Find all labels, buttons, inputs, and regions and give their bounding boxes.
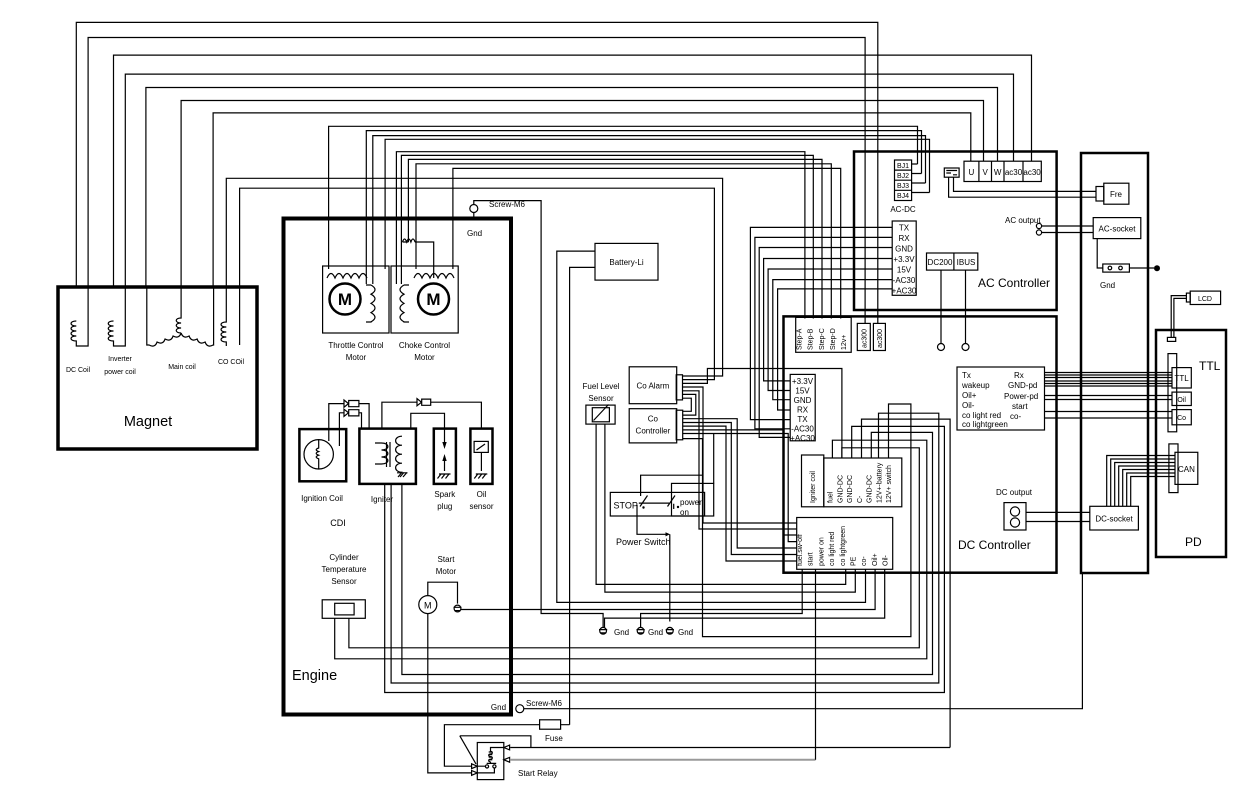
wire main coil U: [213, 113, 971, 287]
start relay box: [477, 743, 504, 780]
relay contact wires: [477, 766, 494, 773]
LCD box: [1190, 291, 1220, 304]
fuse: [540, 720, 561, 729]
switch link wire: [639, 502, 669, 504]
engine box: [284, 219, 512, 715]
igniter box: [359, 429, 416, 484]
svg-text:CDI: CDI: [330, 518, 346, 528]
wire co controller r2: [683, 423, 797, 555]
wire co alarm r3: [683, 369, 842, 459]
wire screw bottom to tall box: [524, 573, 1083, 709]
wire STOP top branch: [641, 475, 703, 496]
svg-text:+3.3V: +3.3V: [893, 255, 915, 264]
wire co controller r5: [683, 434, 797, 542]
svg-text:Sensor: Sensor: [588, 394, 614, 403]
wire co alarm r5: [683, 391, 797, 529]
diode+rect pair to ignition coil: [329, 400, 369, 441]
cylinder temperature sensor: [322, 600, 365, 619]
wire igniter3 B3: [402, 432, 933, 674]
wire AC-DC RX: [755, 237, 892, 428]
wire CAN 1: [1107, 456, 1175, 507]
svg-text:Co: Co: [648, 415, 659, 424]
svg-text:Step-A: Step-A: [797, 328, 804, 350]
magnet box: [58, 287, 257, 449]
relay coil: [487, 748, 504, 764]
wire CAN 7: [1131, 477, 1175, 507]
svg-text:co light red: co light red: [962, 411, 1001, 420]
choke control motor box: [391, 266, 458, 333]
svg-text:Screw-M6: Screw-M6: [526, 699, 563, 708]
wire screw top L to gnd1: [474, 201, 603, 628]
throttle winding top: [327, 274, 367, 279]
svg-text:AC-DC: AC-DC: [890, 205, 916, 214]
wire throttle4 to BJ4: [385, 139, 929, 269]
DC-socket box: [1090, 506, 1139, 530]
TTL connector: [1168, 354, 1177, 432]
DC200 IBUS: [927, 253, 978, 270]
wires AC output to AC-socket: [1042, 226, 1094, 233]
svg-text:Motor: Motor: [346, 353, 367, 362]
co alarm connector: [676, 375, 682, 400]
connector wires to Fre: [954, 177, 1097, 191]
svg-text:Gnd: Gnd: [467, 229, 482, 238]
svg-text:Gnd: Gnd: [614, 628, 629, 637]
arrows into relay right: [504, 745, 510, 762]
wire main coil W: [146, 88, 998, 288]
Step block: [796, 317, 852, 352]
svg-text:BJ2: BJ2: [897, 173, 909, 180]
choke M circle: [418, 284, 449, 315]
gnd 2: [637, 627, 644, 634]
wire choke4 StepD: [416, 164, 831, 319]
DC controller box: [784, 316, 1057, 572]
svg-text:-AC30: -AC30: [893, 276, 916, 285]
svg-text:on: on: [680, 508, 689, 517]
svg-text:GND-DC: GND-DC: [847, 475, 854, 503]
wire battery1: [557, 251, 866, 602]
power on box: [672, 483, 714, 516]
svg-text:Step-B: Step-B: [808, 328, 815, 350]
svg-text:Start: Start: [438, 555, 456, 564]
svg-text:fuel: fuel: [828, 491, 835, 503]
igniter transformer: [375, 436, 402, 472]
wire DC coil lead1 to ac300 no2: [76, 22, 878, 323]
throttle control motor box: [323, 266, 389, 333]
svg-text:Cylinder: Cylinder: [329, 553, 359, 562]
svg-text:+3.3V: +3.3V: [792, 377, 814, 386]
svg-text:Rx: Rx: [1014, 371, 1024, 380]
IBUS wire + circle: [965, 270, 967, 343]
wires DC output to DC-socket: [1026, 512, 1090, 521]
wire start terminal right: [461, 569, 875, 609]
svg-text:Ignition Coil: Ignition Coil: [301, 494, 343, 503]
svg-text:Tx: Tx: [962, 371, 971, 380]
svg-text:Controller: Controller: [636, 427, 671, 436]
wire choke2 StepB: [401, 155, 813, 318]
AC controller box: [854, 152, 1057, 311]
wire AC-DC 15V: [768, 269, 892, 391]
svg-text:co-: co-: [861, 556, 868, 566]
svg-text:Choke Control: Choke Control: [399, 341, 450, 350]
svg-text:Sensor: Sensor: [331, 577, 357, 586]
svg-text:Battery-Li: Battery-Li: [609, 258, 643, 267]
wire relay to C- col (pyramid): [862, 419, 951, 747]
wire power-on box top to co controller r5 row: [713, 434, 715, 484]
svg-text:power: power: [680, 498, 702, 507]
svg-text:ac300: ac300: [862, 329, 869, 348]
wire igniter1 B5: [385, 426, 945, 692]
diode+rect to oil sensor: [382, 399, 482, 429]
svg-text:LCD: LCD: [1198, 296, 1212, 303]
svg-text:V: V: [983, 168, 989, 177]
wire co alarm link1: [683, 394, 696, 415]
svg-text:AC output: AC output: [1005, 216, 1041, 225]
svg-text:M: M: [338, 290, 352, 309]
relay contacts: [485, 765, 488, 768]
svg-text:RX: RX: [898, 234, 910, 243]
svg-text:co lightgreen: co lightgreen: [962, 420, 1008, 429]
svg-text:start: start: [1012, 402, 1028, 411]
wire relay right gray: [510, 759, 816, 761]
fuse wire: [444, 725, 569, 767]
throttle coil right: [366, 285, 375, 322]
spark gap symbol: [444, 429, 446, 471]
svg-text:Oil-: Oil-: [883, 554, 890, 566]
svg-text:PD: PD: [1185, 535, 1202, 549]
svg-text:co-: co-: [1010, 412, 1021, 421]
svg-text:DC200: DC200: [928, 258, 953, 267]
svg-text:Main coil: Main coil: [168, 364, 196, 371]
svg-text:Gnd: Gnd: [491, 703, 506, 712]
screw-M6 top: [470, 205, 478, 213]
wire fuel sensor 2: [605, 424, 855, 592]
svg-text:Spark: Spark: [434, 490, 456, 499]
svg-text:fuel.sw-off: fuel.sw-off: [797, 534, 804, 566]
switch blade STOP: [640, 496, 648, 507]
svg-text:Oil: Oil: [1177, 397, 1186, 404]
svg-text:Screw-M6: Screw-M6: [489, 200, 526, 209]
svg-text:Start Relay: Start Relay: [518, 769, 558, 778]
wire gnd3 vertical: [669, 534, 671, 621]
choke coil left: [400, 285, 409, 322]
svg-text:DC Coil: DC Coil: [66, 367, 91, 374]
wire choke3 StepC (via inductor): [408, 159, 822, 318]
svg-text:12V+-battery: 12V+-battery: [876, 462, 883, 503]
wire inverter lead1 to ac30 no2: [114, 55, 1032, 287]
svg-text:Co: Co: [1177, 415, 1186, 422]
svg-text:15V: 15V: [897, 266, 912, 275]
wire fuel sensor 1: [596, 424, 846, 584]
wire relay right black: [510, 747, 950, 749]
gnd component: [1097, 239, 1103, 268]
wire choke1 StepA: [396, 152, 805, 319]
wire AC-DC TX: [750, 227, 892, 419]
svg-text:TX: TX: [797, 415, 808, 424]
svg-text:PE: PE: [851, 556, 858, 566]
wire CAN 4: [1119, 466, 1175, 506]
wire CAN 2: [1111, 459, 1175, 506]
svg-text:Magnet: Magnet: [124, 414, 172, 430]
wire co controller bottom stub to STOP and co light (pyramid L1): [683, 404, 911, 637]
ignition coil inner: [316, 440, 319, 469]
ac300 boxes: [857, 323, 870, 350]
svg-text:Oil-: Oil-: [962, 401, 975, 410]
wire STOP contact to gnd3: [637, 505, 666, 534]
svg-text:Fuel Level: Fuel Level: [583, 382, 620, 391]
svg-text:+AC30: +AC30: [790, 434, 815, 443]
wire CAN 6: [1127, 473, 1175, 506]
svg-text:12V+ switch: 12V+ switch: [886, 465, 893, 503]
wire fuelsw col to gnd2: [641, 569, 803, 627]
wire choke5 12v+: [453, 168, 841, 318]
svg-text:TTL: TTL: [1199, 359, 1221, 373]
svg-text:Gnd: Gnd: [648, 628, 663, 637]
arrows into relay left: [472, 764, 478, 776]
svg-text:CO COil: CO COil: [218, 359, 245, 366]
start motor terminal: [454, 605, 461, 612]
svg-text:Inverter: Inverter: [108, 356, 132, 363]
svg-text:BJ1: BJ1: [897, 163, 909, 170]
svg-text:Power-pd: Power-pd: [1004, 392, 1038, 401]
svg-text:BJ4: BJ4: [897, 193, 909, 200]
co controller box: [629, 409, 677, 443]
Tx wakeup box: [957, 367, 1045, 430]
Fre box: [1104, 183, 1129, 204]
co controller connector: [676, 410, 683, 440]
tall box: [1081, 153, 1148, 573]
fuel block: [824, 458, 902, 507]
svg-text:Power Switch: Power Switch: [616, 537, 671, 547]
igniter coil box: [802, 455, 824, 507]
svg-text:GND-pd: GND-pd: [1008, 381, 1037, 390]
wire battery2 to fuse: [570, 267, 595, 724]
svg-text:Step-D: Step-D: [830, 328, 837, 350]
svg-text:Temperature: Temperature: [322, 565, 367, 574]
wire CTS2 B2: [335, 440, 927, 659]
wire AC-DC GND: [759, 248, 892, 438]
svg-text:wakeup: wakeup: [961, 381, 990, 390]
svg-text:sensor: sensor: [469, 502, 493, 511]
svg-text:-AC30: -AC30: [791, 425, 814, 434]
LCD wires: [1171, 296, 1186, 338]
svg-text:12v+: 12v+: [841, 335, 848, 350]
wire CO coil to Co Alarm 1: [226, 178, 722, 376]
svg-text:Oil: Oil: [477, 490, 487, 499]
wire main coil V: [181, 101, 983, 288]
start motor: [419, 596, 437, 614]
wire co alarm link2: [683, 398, 692, 411]
svg-text:RX: RX: [797, 406, 809, 415]
svg-text:AC-socket: AC-socket: [1099, 225, 1137, 234]
wire throttle2 to BJ2: [366, 131, 921, 284]
svg-text:M: M: [426, 290, 440, 309]
oil sensor ground: [474, 474, 487, 479]
wire igniter2 B4: [391, 413, 939, 683]
svg-text:M: M: [424, 601, 432, 611]
fuelsw block: [797, 518, 893, 570]
svg-text:15V: 15V: [795, 387, 810, 396]
wire CAN 3: [1115, 463, 1175, 507]
svg-text:co lightgreen: co lightgreen: [840, 526, 847, 566]
battery box: [595, 243, 658, 280]
small connector: [944, 168, 959, 177]
wire gnd1 right: [605, 569, 885, 627]
svg-text:co light red: co light red: [829, 532, 836, 566]
small inductor on choke wire: [403, 239, 434, 278]
CO coil: [221, 287, 240, 346]
svg-text:start: start: [808, 552, 815, 566]
svg-text:Igniter: Igniter: [371, 495, 394, 504]
svg-text:ac30: ac30: [1023, 168, 1041, 177]
svg-text:GND-DC: GND-DC: [867, 475, 874, 503]
Oil bundle wires: [1045, 396, 1173, 400]
wire CTS1 B1: [349, 448, 919, 648]
svg-text:TX: TX: [899, 224, 910, 233]
wire throttle1 to BJ1: [329, 126, 918, 269]
svg-text:Motor: Motor: [436, 567, 457, 576]
relay blade diagonal: [460, 736, 476, 764]
STOP box: [610, 492, 704, 516]
wire CAN 5: [1123, 470, 1175, 507]
main coil (Y): [147, 287, 214, 346]
BJ stubs: [912, 164, 930, 193]
svg-text:C-: C-: [857, 495, 864, 503]
svg-text:U: U: [969, 168, 975, 177]
DC 3.3V block: [790, 374, 815, 440]
svg-text:DC output: DC output: [996, 488, 1033, 497]
svg-text:Igniter coil: Igniter coil: [810, 471, 817, 503]
wire AC-DC +AC30: [778, 289, 893, 410]
svg-text:AC Controller: AC Controller: [978, 276, 1050, 290]
TX block: [892, 221, 916, 295]
svg-text:Throttle Control: Throttle Control: [328, 341, 383, 350]
gnd 1: [600, 627, 607, 634]
wire co alarm r4: [683, 387, 797, 523]
switch blade power on: [668, 496, 676, 510]
wire co controller r3: [683, 426, 797, 561]
relay top link: [460, 736, 531, 748]
AC-socket box: [1093, 218, 1141, 239]
svg-text:power coil: power coil: [104, 369, 136, 376]
TTL bundle wires: [1045, 373, 1173, 387]
PD box: [1156, 330, 1226, 557]
gnd 3: [666, 627, 673, 634]
svg-text:GND: GND: [895, 245, 913, 254]
start motor aux wire to terminal: [428, 582, 458, 603]
svg-text:power on: power on: [818, 537, 825, 566]
svg-text:IBUS: IBUS: [957, 258, 976, 267]
svg-text:Fuse: Fuse: [545, 734, 563, 743]
svg-text:STOP: STOP: [614, 501, 638, 511]
choke winding top: [414, 274, 454, 279]
svg-text:Gnd: Gnd: [1100, 281, 1115, 290]
svg-text:plug: plug: [437, 502, 452, 511]
UVW terminal row: [964, 161, 1041, 181]
throttle M circle: [330, 284, 361, 315]
svg-text:DC-socket: DC-socket: [1095, 515, 1133, 524]
svg-text:Step-C: Step-C: [819, 328, 826, 350]
wire AC-DC +3.3V: [764, 259, 893, 381]
spark plug box: [434, 429, 456, 484]
DC coil L1: [71, 287, 88, 346]
wire DC coil lead2 to ac300 no1: [88, 38, 865, 324]
wire AC-DC -AC30: [773, 280, 892, 400]
screw-M6 bottom: [516, 705, 524, 713]
wire start col down: [815, 569, 817, 760]
svg-text:W: W: [994, 168, 1002, 177]
wire start motor down to relay: [428, 614, 471, 773]
DC200 wire + circle: [940, 270, 942, 343]
svg-text:Fre: Fre: [1110, 190, 1123, 199]
svg-text:Oil+: Oil+: [962, 391, 977, 400]
svg-text:BJ3: BJ3: [897, 183, 909, 190]
wire CO coil to Co Alarm 2: [240, 188, 715, 379]
BJ stack: [895, 160, 912, 201]
oil sensor box: [470, 429, 492, 484]
wire co controller r1: [683, 419, 797, 548]
svg-text:ac30: ac30: [1005, 168, 1023, 177]
svg-text:GND-DC: GND-DC: [837, 475, 844, 503]
wire inverter lead2 to ac30 no1: [125, 74, 1013, 287]
svg-text:DC Controller: DC Controller: [958, 538, 1031, 552]
Co bundle wires: [1045, 412, 1173, 419]
co alarm box: [629, 367, 677, 404]
igniter ground: [397, 472, 408, 477]
svg-text:Oil+: Oil+: [872, 553, 879, 566]
svg-text:Engine: Engine: [292, 668, 337, 684]
wire igniter to spark plug: [411, 413, 445, 428]
svg-text:Motor: Motor: [414, 353, 435, 362]
svg-text:CAN: CAN: [1178, 465, 1195, 474]
svg-text:TTL: TTL: [1174, 374, 1189, 383]
ignition coil box: [299, 429, 346, 481]
svg-text:GND: GND: [794, 396, 812, 405]
svg-text:Co Alarm: Co Alarm: [636, 382, 669, 391]
inverter power coil L2: [108, 287, 125, 346]
spark plug ground: [438, 474, 451, 479]
wire co controller r4: [683, 430, 797, 535]
svg-text:+AC30: +AC30: [892, 287, 917, 296]
svg-text:Gnd: Gnd: [678, 628, 693, 637]
wire throttle3 to BJ3: [373, 136, 926, 284]
CAN connector: [1169, 444, 1178, 493]
svg-text:ac300: ac300: [877, 329, 884, 348]
